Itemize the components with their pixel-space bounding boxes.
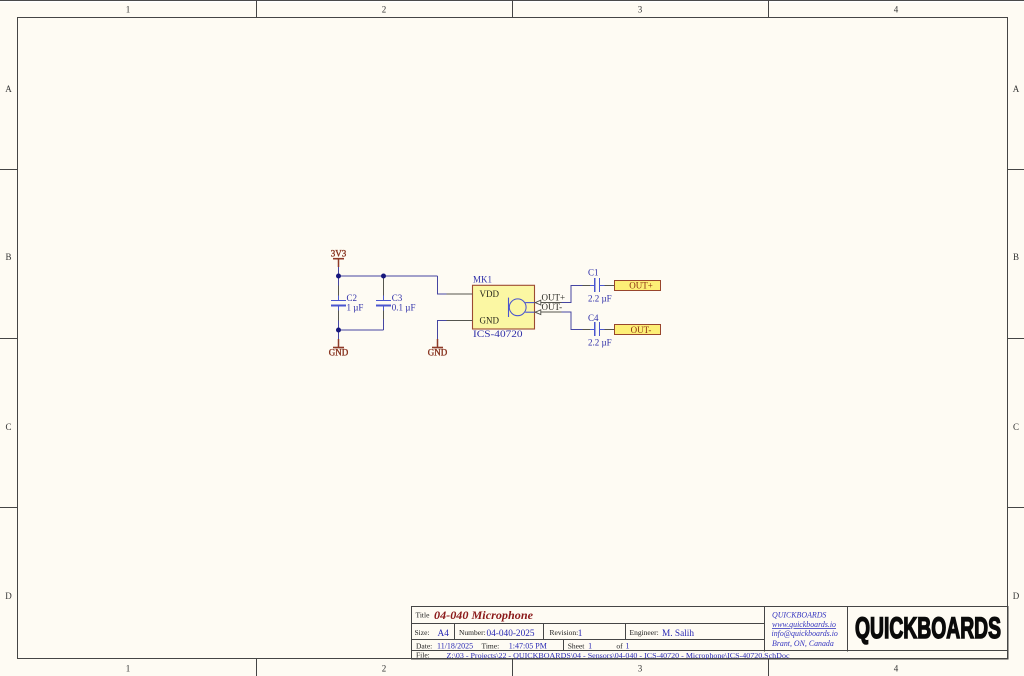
svg-text:Date:: Date: bbox=[416, 641, 432, 650]
svg-text:Number:: Number: bbox=[459, 628, 486, 637]
svg-text:OUT-: OUT- bbox=[542, 302, 563, 312]
port OUT+ bbox=[615, 280, 661, 290]
svg-text:M. Salih: M. Salih bbox=[662, 629, 694, 639]
title block bbox=[412, 607, 1009, 660]
junction node top C3 bbox=[381, 274, 386, 279]
svg-text:Title: Title bbox=[416, 611, 431, 620]
wire OUT- net bbox=[562, 312, 583, 329]
pin GND of MK1 bbox=[447, 320, 473, 322]
svg-text:Engineer:: Engineer: bbox=[630, 628, 659, 637]
svg-text:B: B bbox=[5, 252, 11, 262]
svg-text:11/18/2025: 11/18/2025 bbox=[437, 641, 473, 650]
capacitor C1 bbox=[583, 268, 615, 304]
svg-text:C4: C4 bbox=[588, 313, 599, 323]
svg-text:C1: C1 bbox=[588, 268, 599, 278]
svg-text:A: A bbox=[5, 84, 12, 94]
wire GND2 branch bbox=[438, 321, 447, 340]
wire OUT+ net bbox=[562, 285, 583, 302]
svg-text:4: 4 bbox=[894, 5, 899, 15]
pin VDD of MK1 bbox=[447, 293, 473, 295]
ground GND2 bbox=[428, 339, 448, 358]
svg-text:OUT-: OUT- bbox=[631, 325, 652, 335]
microphone MK1 body bbox=[473, 275, 535, 341]
capacitor C2 bbox=[331, 286, 363, 321]
svg-text:www.quickboards.io: www.quickboards.io bbox=[772, 620, 836, 629]
port OUT- bbox=[615, 325, 661, 336]
svg-text:VDD: VDD bbox=[480, 289, 500, 299]
svg-text:04-040 Microphone: 04-040 Microphone bbox=[434, 610, 533, 622]
svg-text:1:47:05 PM: 1:47:05 PM bbox=[509, 641, 547, 650]
svg-text:0.1 µF: 0.1 µF bbox=[392, 302, 416, 312]
svg-text:GND: GND bbox=[428, 348, 448, 358]
svg-text:Sheet: Sheet bbox=[568, 641, 586, 650]
wire C2 bottom to GND rail bbox=[338, 321, 340, 340]
svg-text:Z:\03 - Projects\22 - QUICKBOA: Z:\03 - Projects\22 - QUICKBOARDS\04 - S… bbox=[447, 651, 791, 660]
svg-text:GND: GND bbox=[329, 348, 349, 358]
capacitor C4 bbox=[583, 313, 615, 347]
svg-text:File:: File: bbox=[416, 651, 430, 660]
svg-text:C: C bbox=[1013, 422, 1019, 432]
svg-text:of: of bbox=[616, 641, 623, 650]
svg-text:2: 2 bbox=[382, 5, 387, 15]
wire C3 top stub bbox=[383, 276, 385, 279]
svg-text:Brant, ON, Canada: Brant, ON, Canada bbox=[772, 639, 834, 648]
svg-text:2.2 µF: 2.2 µF bbox=[588, 294, 612, 304]
capacitor C3 bbox=[376, 279, 416, 319]
svg-text:1: 1 bbox=[126, 664, 131, 674]
svg-text:B: B bbox=[1013, 252, 1019, 262]
svg-text:1: 1 bbox=[578, 629, 583, 639]
junction node bottom bbox=[336, 328, 341, 333]
power port 3V3 bbox=[331, 249, 347, 268]
svg-text:4: 4 bbox=[894, 664, 899, 674]
pin OUT+ of MK1 bbox=[535, 292, 566, 305]
company info block bbox=[772, 611, 838, 648]
wire top rail bbox=[339, 275, 438, 277]
svg-text:3: 3 bbox=[638, 5, 643, 15]
wire VDD branch bbox=[438, 276, 447, 294]
svg-text:3V3: 3V3 bbox=[331, 249, 347, 259]
svg-text:GND: GND bbox=[480, 315, 500, 325]
svg-text:1 µF: 1 µF bbox=[347, 302, 364, 312]
svg-text:D: D bbox=[1013, 591, 1020, 601]
svg-text:A: A bbox=[1013, 84, 1020, 94]
svg-text:1: 1 bbox=[126, 5, 131, 15]
svg-text:1: 1 bbox=[588, 641, 592, 650]
svg-text:OUT+: OUT+ bbox=[542, 292, 566, 302]
mic transducer symbol bbox=[508, 298, 510, 317]
svg-text:2.2 µF: 2.2 µF bbox=[588, 338, 612, 348]
svg-text:Time:: Time: bbox=[482, 641, 500, 650]
svg-text:OUT+: OUT+ bbox=[629, 280, 653, 290]
svg-text:ICS-40720: ICS-40720 bbox=[473, 330, 523, 340]
wire bottom rail bbox=[339, 329, 384, 331]
svg-text:Revision:: Revision: bbox=[550, 628, 579, 637]
junction node top C2 bbox=[336, 274, 341, 279]
svg-text:QUICKBOARDS: QUICKBOARDS bbox=[855, 612, 1001, 645]
svg-text:QUICKBOARDS: QUICKBOARDS bbox=[772, 611, 826, 620]
wire 3V3 vertical rail bbox=[339, 267, 583, 340]
svg-text:3: 3 bbox=[638, 664, 643, 674]
svg-text:04-040-2025: 04-040-2025 bbox=[487, 629, 535, 639]
svg-text:2: 2 bbox=[382, 664, 387, 674]
svg-text:MK1: MK1 bbox=[473, 275, 492, 285]
ground GND1 bbox=[329, 339, 349, 358]
svg-text:1: 1 bbox=[626, 641, 630, 650]
svg-text:info@quickboards.io: info@quickboards.io bbox=[772, 629, 838, 638]
svg-text:A4: A4 bbox=[438, 629, 450, 639]
pin OUT- of MK1 bbox=[535, 302, 563, 315]
wire C3 bottom bbox=[383, 306, 385, 330]
svg-text:D: D bbox=[5, 591, 12, 601]
svg-text:Size:: Size: bbox=[415, 628, 430, 637]
svg-text:C: C bbox=[5, 422, 11, 432]
